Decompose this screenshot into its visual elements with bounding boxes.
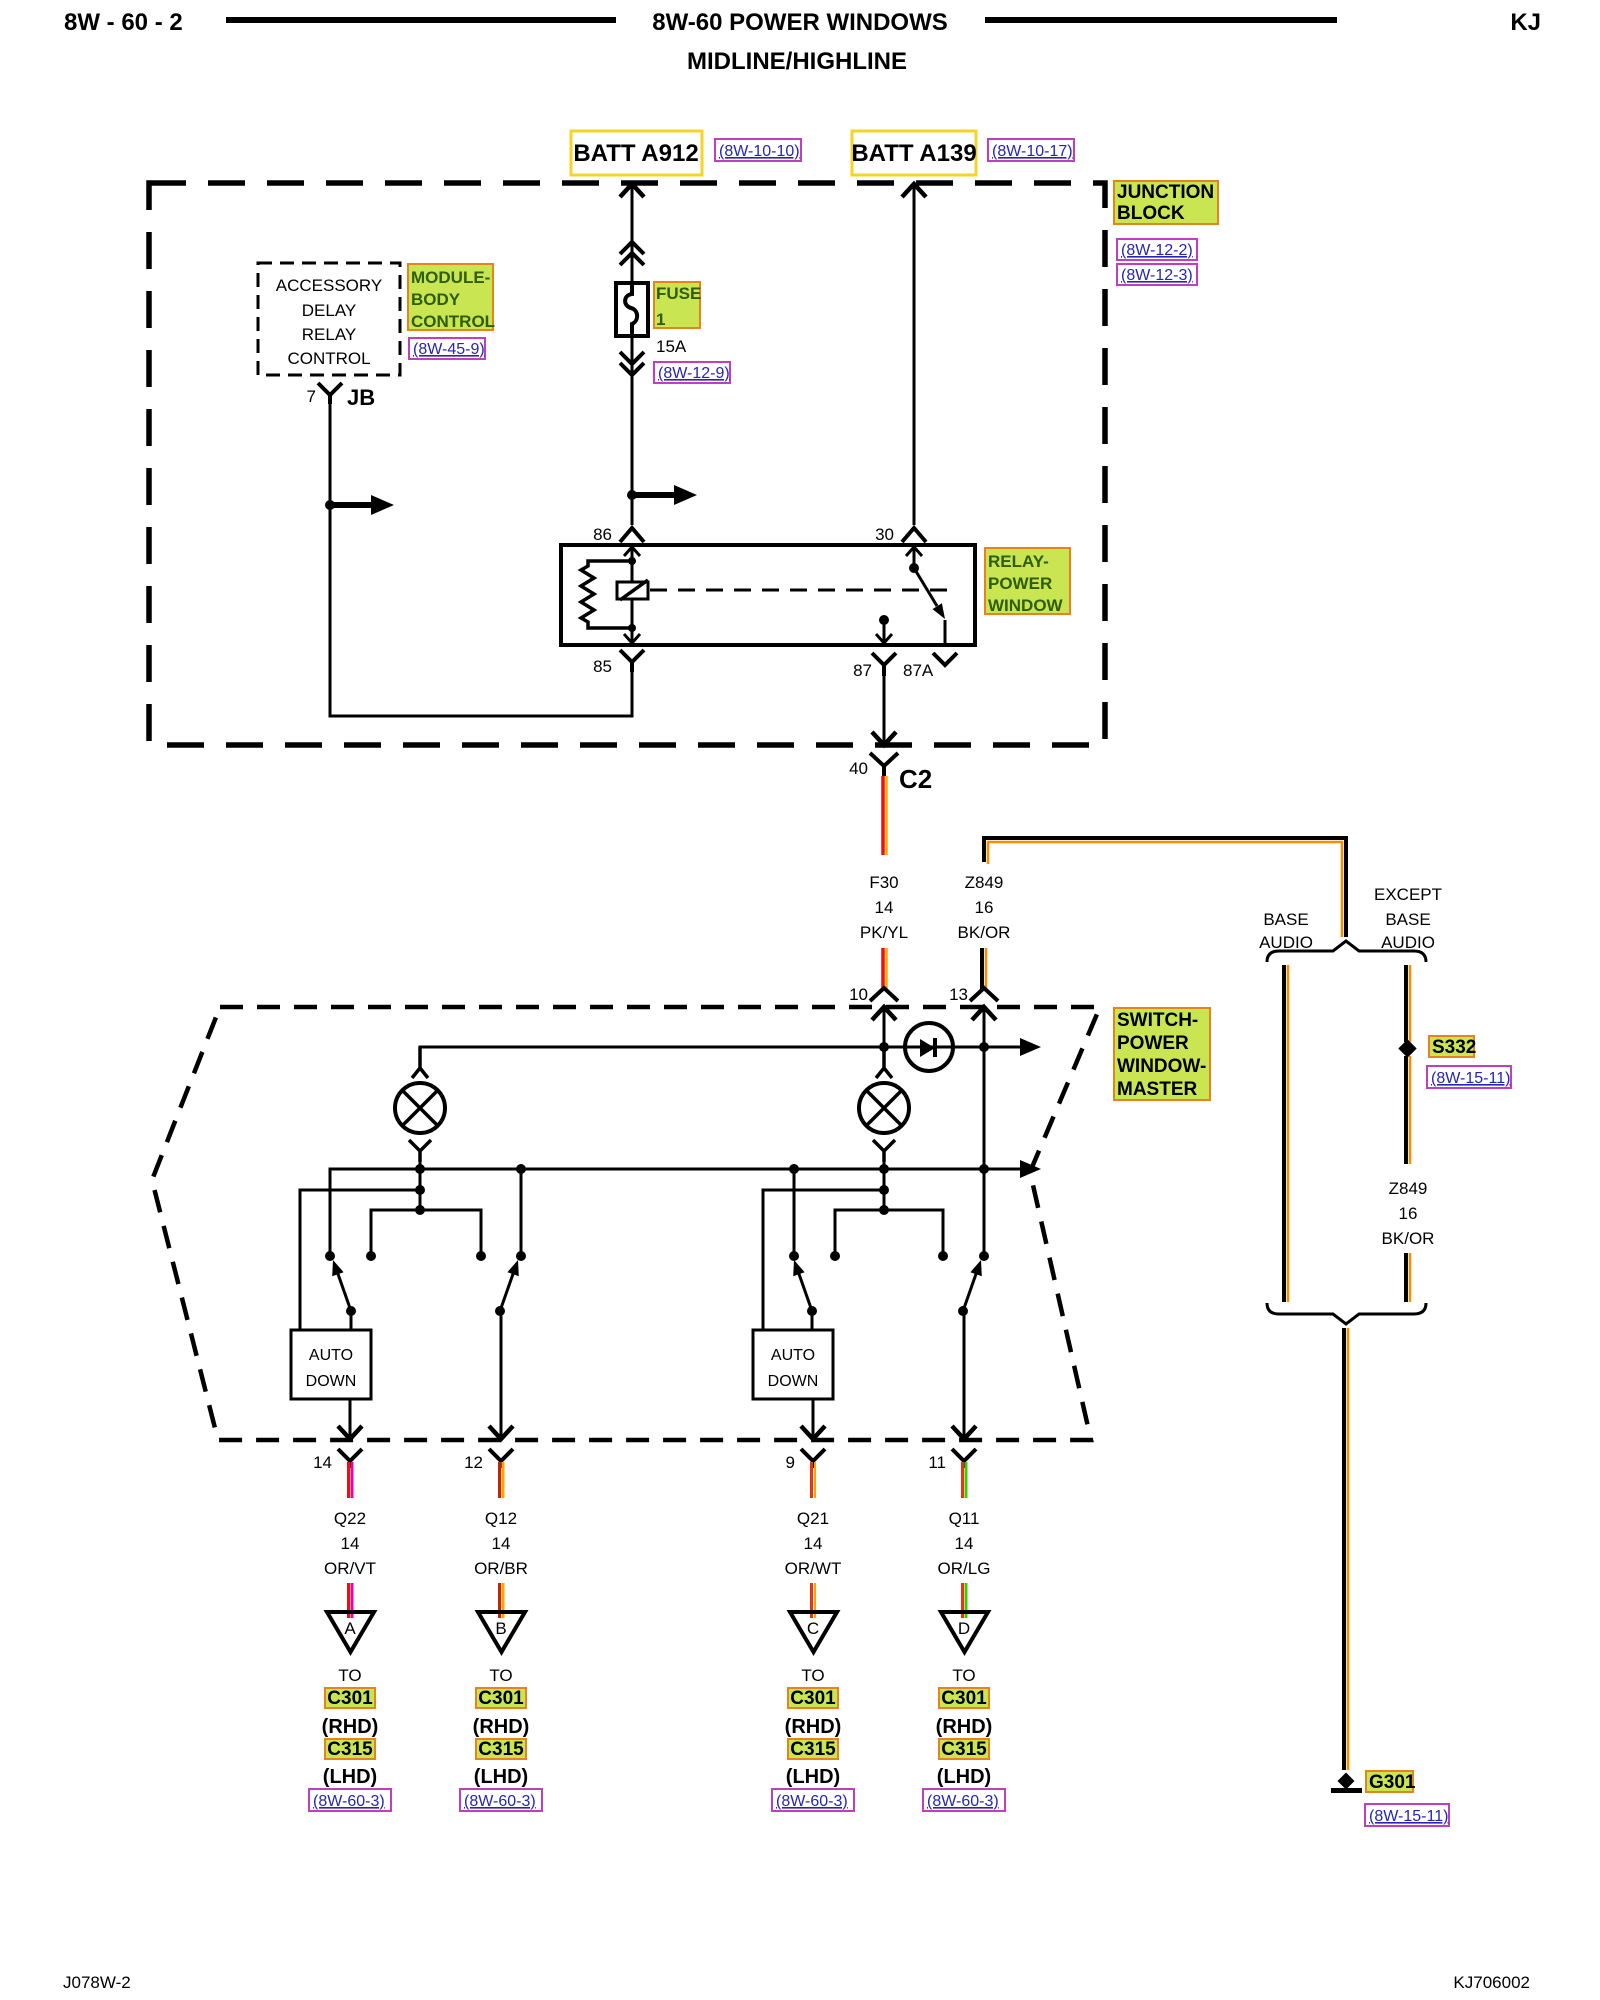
svg-text:(LHD): (LHD) (323, 1766, 377, 1788)
svg-text:CONTROL: CONTROL (411, 312, 495, 331)
relay pin 86 inside arms (624, 547, 640, 556)
svg-text:BATT A139: BATT A139 (851, 140, 976, 167)
svg-text:(8W-12-9): (8W-12-9) (658, 365, 730, 382)
svg-text:14: 14 (492, 1534, 511, 1553)
svg-text:85: 85 (593, 657, 612, 676)
relay mechanical dashed link (650, 589, 955, 592)
connector BATT A139 (851, 131, 976, 175)
off-page connector B (478, 1612, 525, 1652)
connector BATT A912 (571, 131, 702, 175)
svg-text:(8W-60-3): (8W-60-3) (776, 1793, 848, 1810)
junction block label (1114, 181, 1218, 224)
relay pin 87 inside arms (876, 634, 892, 643)
relay pin 85 inside arms (624, 634, 640, 643)
accessory delay relay control dashed box (258, 263, 400, 375)
svg-text:(8W-60-3): (8W-60-3) (927, 1793, 999, 1810)
svg-text:OR/WT: OR/WT (785, 1559, 842, 1578)
link 8W-45-9 (409, 338, 485, 359)
relay resistor (581, 561, 632, 628)
left lamp top connector pair (412, 1047, 428, 1078)
svg-text:TO: TO (489, 1666, 512, 1685)
svg-text:C315: C315 (790, 1739, 836, 1760)
svg-text:(8W-60-3): (8W-60-3) (313, 1793, 385, 1810)
svg-text:13: 13 (949, 985, 968, 1004)
cable chevrons up (620, 242, 644, 265)
svg-text:OR/BR: OR/BR (474, 1559, 528, 1578)
arrowhead up pin13 at boundary (972, 1007, 996, 1020)
svg-text:SWITCH-: SWITCH- (1117, 1010, 1198, 1031)
relay pin 87A connector chevron (933, 653, 957, 665)
svg-text:8W - 60 - 2: 8W - 60 - 2 (64, 9, 183, 36)
wire Q21 segment 1 (OR/WT) (812, 1462, 816, 1498)
wire right lamp to bus (883, 1160, 886, 1210)
right branch wire to auto-down (right pair) (763, 1190, 884, 1330)
svg-text:BK/OR: BK/OR (1382, 1229, 1435, 1248)
svg-text:AUTO: AUTO (309, 1347, 353, 1364)
svg-text:AUDIO: AUDIO (1259, 933, 1313, 952)
svg-text:BLOCK: BLOCK (1117, 203, 1185, 224)
left pair switch arm SW1 (332, 1260, 356, 1330)
wire base audio (BK/OR) (1284, 965, 1288, 1302)
svg-text:B: B (495, 1619, 506, 1638)
wire JB pin7 to relay pin85 (330, 404, 632, 716)
svg-text:(LHD): (LHD) (937, 1766, 991, 1788)
svg-text:Z849: Z849 (1389, 1179, 1428, 1198)
off-page connector C (790, 1612, 837, 1652)
junction block link 8W-12-3 (1117, 264, 1197, 285)
svg-text:AUDIO: AUDIO (1381, 933, 1435, 952)
svg-text:87A: 87A (903, 661, 934, 680)
wire BATT A139 down to relay pin30 (913, 185, 916, 525)
wire pin10 down into switch (883, 1007, 886, 1065)
svg-text:C315: C315 (478, 1739, 524, 1760)
svg-text:C: C (807, 1619, 819, 1638)
svg-text:PK/YL: PK/YL (860, 923, 908, 942)
svg-text:14: 14 (804, 1534, 823, 1553)
svg-text:14: 14 (341, 1534, 360, 1553)
label G301 (1366, 1771, 1416, 1793)
svg-text:WINDOW-: WINDOW- (1117, 1056, 1206, 1077)
svg-text:9: 9 (786, 1453, 795, 1472)
relay junction dots (628, 557, 636, 565)
svg-text:(RHD): (RHD) (322, 1716, 379, 1738)
junction dot on JB wire (325, 500, 335, 510)
wire left auto-down to pin 14 (349, 1399, 352, 1438)
svg-text:16: 16 (1399, 1204, 1418, 1223)
wire except-base-audio segment 2 (BK/OR) (1406, 1056, 1410, 1164)
svg-text:(8W-10-10): (8W-10-10) (719, 143, 800, 160)
relay K1 power window box (561, 545, 975, 645)
svg-text:C301: C301 (478, 1688, 524, 1709)
svg-text:30: 30 (875, 525, 894, 544)
link 8W-15-11 (S332) (1427, 1066, 1511, 1088)
header rule right (985, 17, 1337, 23)
header rule left (226, 17, 616, 23)
fuse label FUSE 1 (654, 282, 701, 329)
wire Q22 segment 2 (OR/VT) (349, 1583, 353, 1618)
svg-text:14: 14 (875, 898, 894, 917)
relay label RELAY-POWER WINDOW (985, 548, 1070, 615)
svg-text:7: 7 (307, 387, 316, 406)
fuse F1 body (616, 283, 648, 336)
svg-text:Q11: Q11 (949, 1509, 980, 1528)
wire Z849 segment 2 (BK/OR) (982, 948, 986, 990)
svg-text:C2: C2 (899, 764, 932, 794)
arrowhead down at junction block boundary (87 wire) (872, 732, 896, 745)
svg-text:MIDLINE/HIGHLINE: MIDLINE/HIGHLINE (687, 48, 907, 75)
relay pin 86 connector (620, 528, 644, 542)
svg-text:AUTO: AUTO (771, 1347, 815, 1364)
relay terminal 87 stub (883, 620, 886, 645)
svg-text:(8W-10-17): (8W-10-17) (992, 143, 1073, 160)
svg-text:OR/VT: OR/VT (324, 1559, 376, 1578)
svg-text:G301: G301 (1369, 1772, 1416, 1793)
cable chevrons down (620, 352, 644, 375)
wire Q11 segment 2 (OR/LG) (963, 1583, 967, 1618)
relay pin 87 connector Y (872, 653, 896, 676)
svg-text:WINDOW: WINDOW (988, 596, 1064, 615)
wire relay 87 to C2 (872, 676, 896, 745)
relay terminal 87A stub (944, 620, 947, 645)
relay switch common wire (913, 545, 916, 568)
switch pin 12 connector Y (489, 1449, 513, 1468)
svg-text:S332: S332 (1432, 1037, 1476, 1058)
svg-text:FUSE: FUSE (656, 284, 701, 303)
svg-text:14: 14 (955, 1534, 974, 1553)
wire except-base-audio segment 1 (BK/OR) (1406, 965, 1410, 1042)
wire right auto-down to pin 9 (812, 1399, 815, 1438)
relay switch arm (914, 568, 937, 606)
svg-text:DOWN: DOWN (768, 1373, 819, 1390)
right pair switch arm SW3 (793, 1260, 817, 1330)
svg-text:C315: C315 (327, 1739, 373, 1760)
master switch label SWITCH-POWER WINDOW-MASTER (1114, 1008, 1210, 1100)
svg-text:A: A (344, 1619, 356, 1638)
svg-text:86: 86 (593, 525, 612, 544)
wire F30 segment 2 (PK/YL) (883, 948, 887, 990)
svg-text:POWER: POWER (1117, 1033, 1189, 1054)
svg-text:(RHD): (RHD) (785, 1716, 842, 1738)
module-body control label (408, 264, 495, 331)
wire F30 segment 1 (PK/YL) (883, 776, 887, 855)
right pair inner contacts wire (835, 1210, 943, 1256)
switch pin 14 connector Y (338, 1449, 362, 1468)
svg-text:ACCESSORY: ACCESSORY (276, 276, 382, 295)
auto down module left (291, 1330, 371, 1399)
left lamp bottom connector (409, 1140, 431, 1162)
ground G301 symbol (1331, 1773, 1362, 1793)
diode bus arrowhead (1020, 1038, 1041, 1056)
junction dot on A912 wire (627, 490, 637, 500)
junction block link 8W-12-2 (1117, 239, 1197, 260)
wire Q22 segment 1 (OR/VT) (349, 1462, 353, 1498)
svg-text:(LHD): (LHD) (474, 1766, 528, 1788)
right pair switch arm SW4 (958, 1260, 982, 1316)
wire BATT A912 down to relay pin86 (631, 185, 634, 525)
wire Q21 segment 2 (OR/WT) (812, 1583, 816, 1618)
right lamp top connector pair (876, 1047, 892, 1078)
branch arrow right from JB wire (330, 502, 373, 508)
svg-text:C315: C315 (941, 1739, 987, 1760)
master switch dashed outline (152, 1007, 1100, 1440)
relay pin 85 connector Y (620, 650, 644, 672)
svg-text:KJ: KJ (1510, 9, 1541, 36)
right pair left contact wire (793, 1169, 796, 1256)
wire Q12 segment 1 (OR/BR) (500, 1462, 504, 1498)
svg-text:RELAY-: RELAY- (988, 552, 1049, 571)
svg-text:(8W-60-3): (8W-60-3) (464, 1793, 536, 1810)
right pair contact dots (789, 1251, 799, 1261)
svg-text:87: 87 (853, 661, 872, 680)
arrowhead up pin10 at boundary (872, 1007, 896, 1020)
svg-text:C301: C301 (327, 1688, 373, 1709)
svg-text:TO: TO (801, 1666, 824, 1685)
wire SW2 to pin 12 (500, 1311, 503, 1438)
svg-text:Q22: Q22 (334, 1509, 366, 1528)
junction block dashed boundary (149, 183, 1105, 745)
junction dots on main bus (415, 1164, 425, 1174)
svg-text:EXCEPT: EXCEPT (1374, 885, 1442, 904)
link 8W-10-10 (715, 139, 801, 161)
switch pin 11 connector Y (952, 1449, 976, 1468)
lamp L2 (right illumination lamp) (859, 1083, 909, 1133)
svg-text:BODY: BODY (411, 290, 461, 309)
svg-text:12: 12 (464, 1453, 483, 1472)
brace top (audio split) (1267, 941, 1426, 962)
relay pin 30 connector (902, 528, 926, 542)
main bus wire inside switch (330, 1169, 1024, 1256)
wire SW4 to pin 11 (963, 1311, 966, 1438)
svg-text:(8W-15-11): (8W-15-11) (1369, 1808, 1448, 1825)
pin 7 connector Y (318, 383, 342, 404)
svg-text:J078W-2: J078W-2 (63, 1973, 131, 1992)
svg-text:TO: TO (952, 1666, 975, 1685)
svg-text:10: 10 (849, 985, 868, 1004)
link 8W-12-9 (654, 362, 730, 383)
svg-text:TO: TO (338, 1666, 361, 1685)
svg-text:1: 1 (656, 310, 665, 329)
diode D1 (905, 1023, 953, 1071)
left pair right contact wire (520, 1169, 523, 1256)
left branch wire to auto-down (left pair) (300, 1190, 420, 1330)
relay coil (617, 580, 648, 600)
brace bottom (audio merge) (1267, 1303, 1426, 1324)
main bus arrowhead (1020, 1160, 1041, 1178)
svg-text:C301: C301 (790, 1688, 836, 1709)
svg-text:(8W-45-9): (8W-45-9) (413, 341, 485, 358)
svg-text:(LHD): (LHD) (786, 1766, 840, 1788)
lamp L1 (left illumination lamp) (395, 1083, 445, 1133)
auto down module right (753, 1330, 833, 1399)
diode bus wire (420, 1047, 1024, 1064)
svg-text:C301: C301 (941, 1688, 987, 1709)
wire Q12 segment 2 (OR/BR) (500, 1583, 504, 1618)
link 8W-10-17 (988, 139, 1074, 161)
off-page connector D (941, 1612, 988, 1652)
svg-text:15A: 15A (656, 337, 687, 356)
svg-text:14: 14 (313, 1453, 332, 1472)
svg-text:(8W-12-2): (8W-12-2) (1121, 242, 1193, 259)
splice S332 (1398, 1039, 1416, 1057)
svg-text:OR/LG: OR/LG (938, 1559, 991, 1578)
switch pin 10 connector (870, 988, 898, 1001)
svg-text:(8W-12-3): (8W-12-3) (1121, 267, 1193, 284)
right lamp bottom connector (873, 1140, 895, 1162)
left pair contact dots (325, 1251, 335, 1261)
wire pin13 down to right contact (983, 1007, 986, 1256)
junction dot pin10/diode bus (879, 1042, 889, 1052)
svg-text:(RHD): (RHD) (936, 1716, 993, 1738)
svg-text:Q21: Q21 (797, 1509, 829, 1528)
svg-text:MODULE-: MODULE- (411, 268, 490, 287)
wire Z849 corner segment (BK/OR) (984, 838, 1346, 937)
svg-text:(8W-15-11): (8W-15-11) (1431, 1070, 1510, 1087)
svg-text:BASE: BASE (1263, 910, 1308, 929)
svg-text:F30: F30 (869, 873, 898, 892)
junction dot pin13/diode bus (979, 1042, 989, 1052)
connector C2 pin 40 Y (870, 753, 898, 776)
svg-text:POWER: POWER (988, 574, 1052, 593)
svg-text:DELAY: DELAY (302, 301, 357, 320)
relay pin 30 inside arms (906, 547, 922, 556)
svg-text:Z849: Z849 (965, 873, 1004, 892)
svg-text:D: D (958, 1619, 970, 1638)
switch pin 13 connector (970, 988, 998, 1001)
link 8W-15-11 (G301) (1365, 1804, 1449, 1826)
wire to ground G301 (BK/OR) (1344, 1328, 1348, 1770)
left pair inner contacts wire (371, 1210, 481, 1256)
svg-text:11: 11 (928, 1453, 946, 1472)
svg-text:BATT A912: BATT A912 (573, 140, 698, 167)
wire Q11 segment 1 (OR/LG) (963, 1462, 967, 1498)
svg-text:JB: JB (347, 385, 375, 410)
svg-text:JUNCTION: JUNCTION (1117, 182, 1214, 203)
relay coil feed wire (631, 545, 634, 645)
off-page connector A (327, 1612, 374, 1652)
svg-text:MASTER: MASTER (1117, 1079, 1198, 1100)
wire left lamp to bus (419, 1160, 422, 1210)
svg-text:RELAY: RELAY (302, 325, 357, 344)
arrowhead up at junction block boundary (A139) (902, 184, 926, 197)
branch arrow right from A912 wire (632, 492, 676, 498)
svg-text:BASE: BASE (1385, 910, 1430, 929)
svg-text:KJ706002: KJ706002 (1453, 1973, 1530, 1992)
svg-text:Q12: Q12 (485, 1509, 517, 1528)
svg-text:16: 16 (975, 898, 994, 917)
wire except-base-audio segment 3 (BK/OR) (1406, 1253, 1410, 1302)
svg-text:BK/OR: BK/OR (958, 923, 1011, 942)
svg-text:(RHD): (RHD) (473, 1716, 530, 1738)
svg-text:DOWN: DOWN (306, 1373, 357, 1390)
label S332 (1429, 1036, 1476, 1058)
svg-text:40: 40 (849, 759, 868, 778)
svg-text:8W-60 POWER WINDOWS: 8W-60 POWER WINDOWS (652, 9, 948, 36)
svg-text:CONTROL: CONTROL (287, 349, 370, 368)
arrowhead up at junction block boundary (A912) (620, 184, 644, 197)
left pair switch arm SW2 (495, 1260, 519, 1316)
switch pin 9 connector Y (801, 1449, 825, 1468)
